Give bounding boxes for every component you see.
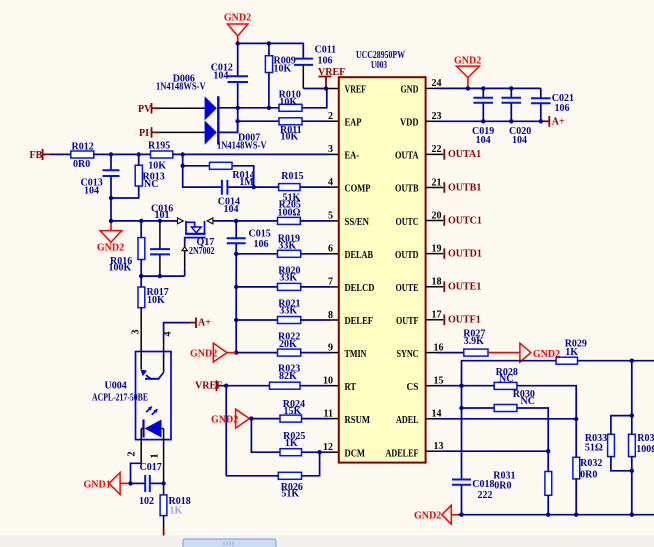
node R030 branch (459, 406, 463, 410)
ground GND2 mid-left (97, 221, 124, 254)
svg-text:RT: RT (345, 382, 357, 393)
svg-text:1K: 1K (170, 506, 183, 517)
wire R029 to edge (578, 360, 654, 362)
op-amp U003 UCC28950PW (IC body) (339, 50, 426, 463)
svg-text:OUTD: OUTD (395, 250, 419, 261)
node R016 top (139, 219, 143, 223)
svg-text:A+: A+ (552, 117, 565, 128)
svg-text:RSUM: RSUM (345, 415, 371, 426)
resistor R013 (111, 154, 165, 198)
svg-text:104: 104 (512, 135, 527, 146)
svg-text:101: 101 (155, 210, 170, 221)
node C019 top (481, 86, 485, 90)
svg-text:0R0: 0R0 (494, 481, 511, 492)
node pin2 net (235, 119, 239, 123)
ground GND2 at TMIN (190, 343, 236, 362)
svg-text:R195: R195 (148, 141, 170, 152)
svg-text:U003: U003 (371, 60, 387, 71)
svg-text:R012: R012 (72, 141, 94, 152)
node C013/R013 bottom (109, 196, 113, 200)
svg-text:0R0: 0R0 (73, 159, 90, 170)
node bus pin9 (234, 350, 238, 354)
svg-text:1N4148WS-V: 1N4148WS-V (217, 141, 267, 152)
svg-text:OUTE: OUTE (396, 283, 419, 294)
svg-text:C018: C018 (472, 479, 494, 490)
svg-text:GND2: GND2 (454, 56, 481, 67)
svg-text:33K: 33K (279, 306, 297, 317)
wire FB to R012 (50, 153, 71, 155)
svg-text:106: 106 (555, 103, 570, 114)
wire C011 to VREF node (303, 88, 326, 90)
svg-text:106: 106 (254, 239, 269, 250)
capacitor C011 (294, 45, 336, 89)
node C020 bottom (509, 119, 513, 123)
svg-text:10K: 10K (147, 295, 165, 306)
svg-text:10K: 10K (279, 97, 297, 108)
svg-text:SS/EN: SS/EN (345, 217, 370, 228)
node C019 bottom (481, 119, 485, 123)
resistor R205 (278, 200, 301, 225)
node rail/R034 (630, 513, 634, 517)
wire R195 to pin3 (173, 153, 330, 155)
port OUTC1 (426, 215, 482, 226)
capacitor C016 (150, 203, 173, 276)
svg-text:DELAB: DELAB (345, 250, 374, 261)
svg-text:R031: R031 (493, 470, 515, 481)
svg-text:4: 4 (163, 332, 174, 337)
resistor R020 (236, 265, 339, 290)
node R033/R034 bottom (630, 469, 634, 473)
node bus pin6 (234, 252, 238, 256)
node CS bus (459, 384, 463, 388)
port OUTB1 (426, 182, 482, 193)
wire Q17 source to pin5 run (213, 220, 278, 222)
node C016 top (158, 219, 162, 223)
wire CS net horizontal (462, 361, 557, 480)
resistor R030 (494, 389, 535, 411)
node bus pin7 (234, 285, 238, 289)
svg-text:2: 2 (127, 452, 138, 457)
svg-text:10K: 10K (281, 132, 299, 143)
svg-text:GND2: GND2 (97, 243, 124, 254)
svg-text:104: 104 (84, 186, 99, 197)
wire R015 to pin4 (300, 186, 330, 188)
svg-text:5: 5 (328, 211, 333, 222)
wire pin23 vdd run (426, 120, 437, 122)
svg-text:OUTC1: OUTC1 (448, 215, 482, 226)
port OUTD1 (426, 248, 482, 259)
svg-text:DELEF: DELEF (345, 316, 374, 327)
node VREF pin1 (324, 86, 328, 90)
wire gnd rail top (238, 43, 304, 58)
node R013 top (137, 152, 141, 156)
resistor R025 (280, 431, 339, 456)
svg-text:10K: 10K (148, 161, 166, 172)
svg-text:24: 24 (432, 78, 442, 89)
resistor R018 (160, 495, 191, 547)
wire pin2 run (238, 120, 279, 122)
ground GND2 at RSUM (211, 409, 251, 428)
svg-text:12: 12 (323, 442, 333, 453)
svg-text:ADELEF: ADELEF (386, 448, 419, 459)
svg-text:GND2: GND2 (224, 13, 251, 24)
svg-text:51K: 51K (281, 489, 299, 500)
svg-text:3: 3 (130, 330, 141, 335)
svg-text:4: 4 (328, 177, 333, 188)
svg-text:100K: 100K (109, 263, 132, 274)
node bus pin8 (234, 318, 238, 322)
svg-text:8: 8 (328, 310, 333, 321)
svg-text:2: 2 (328, 111, 333, 122)
svg-text:11: 11 (324, 408, 333, 419)
svg-text:OUTB: OUTB (395, 184, 419, 195)
svg-text:104: 104 (213, 71, 228, 82)
svg-text:22: 22 (432, 144, 442, 155)
resistor R027 (463, 329, 488, 357)
resistor R026 (226, 472, 303, 499)
svg-text:PV: PV (138, 104, 152, 115)
svg-text:7: 7 (328, 277, 333, 288)
wire bottom gnd rail (458, 514, 654, 516)
svg-text:SYNC: SYNC (397, 349, 419, 360)
wire pin15 CS (426, 385, 437, 387)
port OUTF1 (426, 315, 481, 326)
port A+ right (545, 116, 565, 128)
resistor R029 (556, 339, 587, 365)
port OUTE1 (426, 281, 482, 292)
node pin3 branch (181, 152, 185, 156)
node C015 top (234, 219, 238, 223)
svg-text:C011: C011 (315, 45, 337, 56)
node C021 bottom (539, 119, 543, 123)
svg-text:33K: 33K (279, 273, 297, 284)
diode D007 1N4148WS-V (205, 120, 268, 151)
node C020 top (509, 86, 513, 90)
resistor R033 (585, 416, 632, 471)
wire A+ to U004 pin4 (164, 323, 189, 340)
svg-text:R015: R015 (281, 171, 303, 182)
wire D006 cathode run (218, 107, 279, 109)
svg-text:EAP: EAP (345, 117, 362, 128)
wire DCM to R026 (302, 452, 320, 476)
svg-text:102: 102 (139, 496, 154, 507)
wire VREF to R023 (222, 385, 270, 387)
svg-text:100Ω: 100Ω (636, 444, 654, 455)
svg-text:15K: 15K (284, 406, 302, 417)
svg-text:10: 10 (323, 376, 333, 387)
node VREF branch (224, 384, 228, 388)
wire pin14 ADEL (426, 418, 437, 420)
node R014/C014 left (181, 164, 185, 168)
resistor R028 (494, 367, 518, 390)
svg-text:23: 23 (432, 111, 442, 122)
wire R012 to R195 (94, 153, 151, 155)
svg-text:GND: GND (401, 85, 419, 96)
resistor R011 (279, 118, 302, 143)
svg-text:TMIN: TMIN (345, 349, 367, 360)
transistor Q17 2N7002 (178, 218, 215, 276)
node C012 bottom (236, 106, 240, 110)
node pin14/R028/R032 (574, 417, 578, 421)
svg-text:C017: C017 (140, 462, 162, 473)
svg-text:NC: NC (499, 374, 513, 385)
node R009 bottom (267, 106, 271, 110)
svg-text:GND1: GND1 (84, 480, 111, 491)
resistor R019 (236, 233, 339, 257)
ground GND2 at SYNC (488, 343, 560, 362)
svg-text:2N7002: 2N7002 (189, 246, 215, 257)
wire R030 to pin13 net (517, 408, 548, 451)
svg-text:104: 104 (476, 135, 491, 146)
resistor R010 (279, 90, 302, 112)
svg-text:R032: R032 (580, 458, 602, 469)
svg-text:OUTC: OUTC (396, 217, 419, 228)
svg-text:EA-: EA- (345, 151, 360, 162)
wire R205 to pin5 (300, 220, 330, 222)
svg-text:33K: 33K (278, 241, 296, 252)
node rail/R017 (139, 274, 143, 278)
port OUTA1 (426, 149, 482, 160)
svg-text:3.9K: 3.9K (464, 336, 485, 347)
svg-text:OUTE1: OUTE1 (448, 282, 481, 293)
node rail/R032 (574, 513, 578, 517)
resistor R014 (183, 154, 255, 188)
svg-text:COMP: COMP (345, 184, 371, 195)
port PV (138, 103, 159, 115)
svg-text:1: 1 (150, 454, 161, 459)
ground GND2 top right (454, 56, 481, 89)
wire pin13 ADELEF (426, 450, 437, 452)
svg-text:VDD: VDD (400, 117, 419, 128)
svg-text:18: 18 (432, 277, 442, 288)
resistor R031 (493, 451, 551, 515)
svg-text:21: 21 (432, 177, 442, 188)
node GND1/C017 (128, 481, 132, 485)
wire delay-set bus (235, 254, 237, 353)
port VREF at RT (195, 380, 222, 391)
capacitor C021 (531, 88, 574, 121)
wire y221 run (111, 220, 177, 222)
wire D007 cathode to pin2 net (218, 121, 237, 132)
wire R030 branch (462, 407, 495, 409)
svg-text:GND2: GND2 (414, 511, 441, 522)
node pin13/R030/R031 (546, 449, 550, 453)
node R029 branch (630, 359, 634, 363)
node gnd rail / R009 (267, 41, 271, 45)
resistor R032 (573, 419, 602, 515)
svg-text:U004: U004 (105, 381, 127, 392)
svg-text:9: 9 (328, 342, 333, 353)
capacitor C019 (472, 88, 494, 145)
svg-text:OUTF: OUTF (396, 316, 419, 327)
svg-text:1N4148WS-V: 1N4148WS-V (156, 82, 206, 93)
ground GND2 top (224, 13, 251, 44)
svg-text:0R0: 0R0 (580, 470, 597, 481)
wire U004 pin1 down (163, 429, 165, 495)
svg-text:OUTA: OUTA (395, 151, 419, 162)
ground GND1 (84, 473, 131, 495)
wire pin24 gnd rail (426, 87, 437, 89)
svg-text:6: 6 (328, 244, 333, 255)
svg-text:FB: FB (30, 150, 43, 161)
svg-text:OUTA1: OUTA1 (448, 149, 481, 160)
svg-text:19: 19 (432, 243, 442, 254)
node gnd rail (466, 86, 470, 90)
capacitor C013 (81, 154, 120, 221)
svg-text:51Ω: 51Ω (585, 443, 603, 454)
capacitor C020 (502, 88, 532, 145)
node gnd branch y221 (109, 219, 113, 223)
wire pin16 SYNC (426, 352, 437, 354)
svg-text:NC: NC (144, 179, 158, 190)
svg-text:104: 104 (224, 204, 239, 215)
resistor R024 (251, 399, 338, 422)
svg-text:17: 17 (432, 310, 442, 321)
node rail/C016 (158, 274, 162, 278)
node rail/R031 (546, 513, 550, 517)
svg-text:OUTF1: OUTF1 (448, 315, 481, 326)
svg-text:ACPL-217-50BE: ACPL-217-50BE (92, 393, 148, 404)
scrollbar track (0, 536, 654, 547)
svg-text:10K: 10K (274, 64, 292, 75)
op-amp U004 ACPL-217-50BE optocoupler (92, 352, 171, 440)
node R014/C014 right (252, 185, 256, 189)
svg-text:OUTB1: OUTB1 (448, 182, 481, 193)
svg-text:DELCD: DELCD (345, 283, 375, 294)
wire R011 to pin2 (302, 120, 330, 122)
svg-text:20: 20 (432, 210, 442, 221)
resistor R034 (629, 433, 654, 515)
svg-text:1K: 1K (565, 347, 578, 358)
resistor R015 (279, 171, 304, 204)
resistor R017 (138, 276, 169, 369)
wire pin4 run (254, 186, 279, 188)
resistor R022 (236, 331, 339, 356)
svg-text:222: 222 (478, 490, 493, 501)
svg-text:3: 3 (328, 144, 333, 155)
capacitor C018 (452, 479, 495, 515)
wire RSUM to DCM branch (251, 419, 280, 453)
resistor R012 (71, 141, 94, 170)
node C017/R018 (161, 481, 165, 485)
port FB (30, 149, 51, 161)
node C013 top (109, 152, 113, 156)
wire pin1 stub (326, 88, 339, 90)
scrollbar thumb (183, 539, 276, 547)
port PI (139, 127, 159, 139)
wire VREF vertical to R026 (225, 386, 227, 476)
node RSUM branch (249, 416, 253, 420)
capacitor C012 (211, 43, 248, 131)
node rail/C018 (459, 513, 463, 517)
wire PI to D007 (159, 131, 205, 133)
resistor R009 (265, 43, 295, 107)
resistor R016 (109, 221, 145, 276)
ground GND2 bottom (414, 505, 458, 524)
wire U004 pin2 down (140, 429, 142, 464)
svg-text:82K: 82K (279, 371, 297, 382)
wire R029 net vertical (631, 361, 633, 435)
resistor R023 (270, 364, 339, 390)
svg-text:106: 106 (318, 56, 333, 67)
svg-text:A+: A+ (198, 318, 211, 329)
svg-text:R034: R034 (637, 433, 654, 444)
capacitor C015 (227, 221, 271, 254)
svg-text:VREF: VREF (345, 85, 367, 96)
svg-text:OUTD1: OUTD1 (448, 248, 482, 259)
wire R028 to pin14 net (517, 386, 576, 420)
wire gate/R016/C016 rail (141, 275, 185, 277)
svg-text:1K: 1K (285, 438, 298, 449)
node DCM branch (317, 450, 321, 454)
capacitor C017 (131, 462, 164, 507)
svg-text:NC: NC (521, 396, 535, 407)
resistor R195 (148, 141, 173, 172)
svg-text:ADEL: ADEL (396, 415, 419, 426)
svg-text:DCM: DCM (345, 448, 366, 459)
node gnd rail / C012 (236, 41, 240, 45)
diode D006 1N4148WS-V (156, 73, 218, 120)
svg-text:CS: CS (407, 382, 419, 393)
resistor R021 (236, 298, 339, 323)
port VREF (pin1) (318, 67, 345, 89)
capacitor C014 (183, 166, 254, 215)
svg-text:GND2: GND2 (211, 414, 238, 425)
wire PV to D006 (159, 107, 205, 109)
wire VREF node down to R010 (302, 89, 327, 108)
svg-text:100Ω: 100Ω (278, 208, 301, 219)
svg-text:PI: PI (139, 128, 149, 139)
port A+ left (189, 318, 211, 329)
svg-text:20K: 20K (279, 339, 297, 350)
node R033 branch (630, 413, 634, 417)
svg-text:C015: C015 (249, 229, 271, 240)
